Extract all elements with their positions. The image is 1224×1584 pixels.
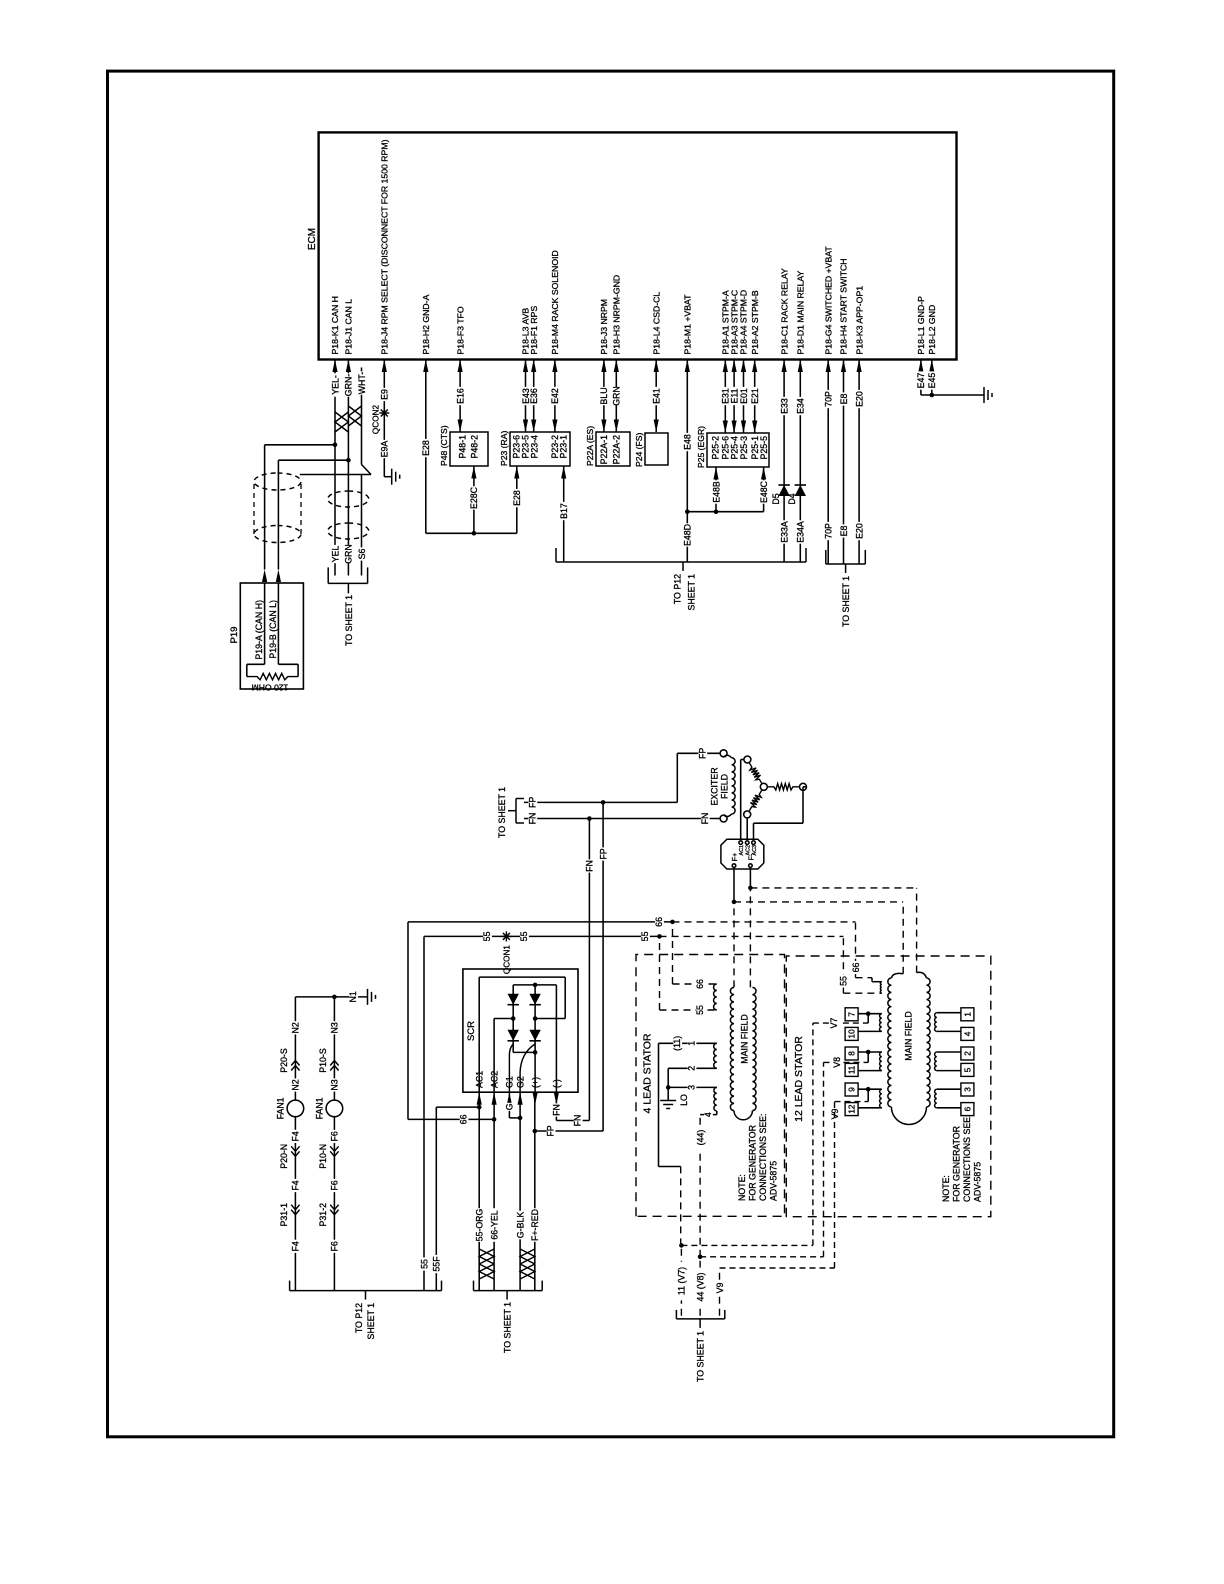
svg-text:P18-F3 TFO: P18-F3 TFO	[455, 306, 465, 354]
svg-text:P18-H2 GND-A: P18-H2 GND-A	[421, 294, 431, 354]
connector P25 (EGR)	[707, 433, 769, 467]
wire lead 4	[700, 1114, 717, 1116]
svg-text:66: 66	[654, 917, 664, 927]
quick connect P10-N	[330, 1146, 338, 1156]
svg-text:P18-G4 SWITCHED +VBAT: P18-G4 SWITCHED +VBAT	[823, 246, 833, 355]
ground for ECM	[983, 387, 985, 403]
svg-text:55: 55	[419, 1259, 429, 1269]
fan circuit 1 wire	[294, 997, 296, 1291]
svg-text:P22A (ES): P22A (ES)	[585, 426, 595, 466]
svg-text:P24 (FS): P24 (FS)	[634, 432, 644, 467]
svg-text:4: 4	[703, 1112, 713, 1117]
svg-text:NOTE:: NOTE:	[941, 1175, 951, 1202]
wire 44 (V8) to bracket	[699, 1257, 701, 1316]
wire shield link	[362, 465, 372, 475]
quick connect QCON2	[383, 408, 385, 418]
12LS phase winding 8-11	[880, 1052, 882, 1071]
wire E48C to P25-5	[763, 467, 765, 512]
svg-text:E8: E8	[839, 394, 849, 405]
svg-text:E36: E36	[529, 388, 539, 404]
wire BLU NRPM	[603, 360, 605, 433]
twisted pair 55-ORG/66-YEL	[479, 1264, 494, 1279]
wire 70P switched +VBAT	[827, 360, 829, 565]
svg-text:V9: V9	[715, 1283, 725, 1294]
svg-text:E01: E01	[739, 388, 749, 404]
4 lead stator dashed box	[636, 955, 785, 1217]
svg-text:GRN-: GRN-	[344, 374, 354, 397]
terminal 8	[858, 1051, 882, 1053]
svg-text:FN: FN	[700, 813, 710, 825]
svg-text:E47: E47	[916, 373, 926, 389]
wire 66 to 4LS aux	[672, 922, 674, 984]
node N1 junction	[332, 995, 337, 1000]
svg-text:10: 10	[848, 1029, 857, 1039]
wire S6 shield to sheet 1	[361, 475, 363, 576]
twisted pair G-BLK/F+-RED	[520, 1264, 535, 1279]
node 66 junction	[670, 920, 675, 925]
svg-text:MAIN FIELD: MAIN FIELD	[904, 1011, 914, 1060]
wire GRN NRPM-GND	[615, 360, 617, 433]
diode D5	[778, 485, 789, 496]
svg-text:CONNECTIONS SEE:: CONNECTIONS SEE:	[962, 1115, 972, 1203]
svg-text:F+: F+	[732, 853, 739, 861]
quick connect P10-S	[330, 1061, 338, 1071]
SCR bridge internal wiring	[478, 977, 480, 1092]
svg-text:E41: E41	[652, 388, 662, 404]
gate lead G2	[520, 1044, 535, 1072]
connector P19	[240, 583, 303, 689]
svg-text:P19: P19	[229, 627, 240, 644]
svg-text:9: 9	[848, 1087, 857, 1092]
svg-text:E20: E20	[854, 391, 864, 407]
wire E41 CSD-CL	[655, 360, 657, 433]
ECM box U1	[319, 132, 957, 359]
svg-text:E28: E28	[512, 490, 522, 506]
terminal armature A	[744, 756, 751, 763]
svg-text:CONNECTIONS SEE:: CONNECTIONS SEE:	[758, 1114, 768, 1202]
fan motor FAN1 (generator)	[326, 1100, 343, 1117]
svg-text:44 (V8): 44 (V8)	[695, 1273, 705, 1302]
wire FN return	[555, 1092, 557, 1120]
svg-text:TO P12: TO P12	[673, 574, 683, 604]
wire 66-YEL (AC2)	[493, 1092, 495, 1290]
wire E01 STPM-D	[743, 360, 745, 434]
svg-text:P19-B (CAN L): P19-B (CAN L)	[268, 600, 278, 659]
svg-text:N1: N1	[348, 991, 358, 1002]
svg-text:4: 4	[963, 1031, 972, 1036]
svg-text:E20: E20	[854, 523, 864, 539]
wire E28C to P48-2	[473, 466, 475, 533]
svg-text:FN: FN	[552, 1104, 562, 1116]
svg-text:WHT-: WHT-	[357, 372, 367, 395]
12LS auxiliary winding	[880, 982, 881, 994]
wire 11 (V7) to bracket	[680, 1245, 682, 1315]
svg-text:SHEET 1: SHEET 1	[687, 574, 697, 611]
wire E48 +VBAT	[686, 360, 688, 512]
wire armature C to AC3	[803, 786, 807, 788]
connector bracket TO SHEET 1 (SCR pairs)	[474, 1290, 543, 1292]
svg-text:TO SHEET 1: TO SHEET 1	[841, 576, 851, 627]
svg-text:P25-3: P25-3	[739, 436, 749, 460]
svg-text:55: 55	[640, 931, 650, 941]
svg-text:GRN: GRN	[344, 544, 354, 564]
svg-text:P25 (EGR): P25 (EGR)	[696, 426, 706, 468]
wire E33 rack relay	[783, 360, 785, 563]
wire E9 RPM select	[383, 360, 385, 477]
node E48 junction	[685, 509, 690, 514]
terminal 12	[858, 1107, 882, 1109]
svg-text:P18-J4 RPM SELECT (DISCONNECT: P18-J4 RPM SELECT (DISCONNECT FOR 1500 R…	[380, 139, 390, 354]
svg-text:55: 55	[482, 931, 492, 941]
svg-text:AC1: AC1	[739, 845, 745, 856]
svg-text:3: 3	[963, 1087, 972, 1092]
pin F-	[749, 864, 753, 868]
terminal 2	[937, 1051, 961, 1053]
svg-text:E16: E16	[455, 388, 465, 404]
terminal 7	[858, 1013, 882, 1015]
svg-text:(44): (44)	[695, 1130, 705, 1146]
svg-text:P18-K1 CAN H: P18-K1 CAN H	[330, 296, 340, 354]
svg-text:E9: E9	[380, 389, 390, 400]
twist of CAN wires	[335, 412, 348, 432]
pin AC3	[752, 841, 756, 845]
wire 66 net	[407, 922, 409, 1120]
svg-text:2: 2	[687, 1066, 697, 1071]
wire E48D to bracket	[686, 512, 688, 562]
svg-text:B17: B17	[559, 503, 569, 519]
terminal 4	[937, 1030, 961, 1032]
shield of P19 cable	[254, 526, 301, 543]
node E48B junction	[714, 509, 719, 514]
connector P24 (FS)	[645, 433, 668, 465]
svg-text:P18-H3 NRPM-GND: P18-H3 NRPM-GND	[612, 275, 622, 355]
svg-text:YEL: YEL	[330, 546, 340, 563]
svg-text:G-BLK: G-BLK	[515, 1212, 525, 1239]
svg-text:FOR GENERATOR: FOR GENERATOR	[952, 1126, 962, 1202]
4LS main field winding	[730, 987, 734, 1110]
wire G1 tie	[508, 1092, 510, 1118]
svg-text:F6: F6	[330, 1180, 340, 1190]
terminal armature B	[744, 811, 751, 818]
wire G-BLK (G2)	[519, 1092, 521, 1290]
svg-text:P22A-2: P22A-2	[612, 435, 622, 464]
svg-text:11: 11	[848, 1065, 857, 1074]
svg-text:E48: E48	[683, 434, 693, 450]
terminal 10	[858, 1030, 882, 1032]
svg-text:P48 (CTS): P48 (CTS)	[439, 425, 449, 466]
ground LO	[667, 1087, 669, 1100]
svg-text:4 LEAD STATOR: 4 LEAD STATOR	[642, 1033, 654, 1113]
svg-text:E9A: E9A	[380, 441, 390, 458]
border frame	[108, 71, 1114, 1437]
connector bracket TO P12 SHEET 1	[556, 561, 806, 563]
svg-text:YEL-: YEL-	[330, 375, 340, 395]
svg-text:1: 1	[963, 1012, 972, 1017]
svg-text:12: 12	[848, 1104, 857, 1114]
svg-text:FOR GENERATOR: FOR GENERATOR	[748, 1125, 758, 1201]
svg-text:66-YEL: 66-YEL	[489, 1210, 499, 1239]
node E28C junction	[472, 531, 477, 536]
wire armature B to AC2	[746, 818, 748, 839]
svg-text:P31-2: P31-2	[318, 1203, 328, 1227]
wire lead 3	[668, 1086, 717, 1088]
pin AC2	[745, 841, 749, 845]
node bridge junctions	[533, 983, 538, 988]
svg-text:FN: FN	[527, 813, 537, 825]
svg-text:12 LEAD STATOR: 12 LEAD STATOR	[793, 1036, 805, 1122]
diode D4	[795, 485, 806, 496]
ground at E9A	[384, 476, 391, 478]
svg-text:55: 55	[519, 931, 529, 941]
svg-text:E28: E28	[421, 440, 431, 456]
wire YEL CAN H	[334, 360, 336, 445]
wire ground drop	[921, 394, 984, 396]
svg-text:3: 3	[687, 1085, 697, 1090]
svg-text:ADV-5875: ADV-5875	[769, 1161, 779, 1201]
svg-text:MAIN FIELD: MAIN FIELD	[739, 1014, 749, 1063]
svg-text:SCR: SCR	[466, 1021, 477, 1041]
svg-text:P18-C1 RACK RELAY: P18-C1 RACK RELAY	[779, 268, 789, 354]
connector bracket TO P12 SHEET 1 (fans)	[290, 1290, 442, 1292]
4LS auxiliary winding	[714, 984, 717, 1010]
svg-text:E33: E33	[779, 398, 789, 414]
svg-text:FAN1: FAN1	[315, 1097, 325, 1119]
wire GRN CAN L	[347, 360, 349, 461]
wire F+-RED (+)	[534, 1092, 536, 1290]
12LS phase winding 1-4	[935, 1013, 937, 1032]
wire E11 STPM-C	[733, 360, 735, 434]
svg-text:8: 8	[848, 1051, 857, 1056]
wire armature A to AC1	[741, 759, 744, 761]
svg-text:BLU: BLU	[599, 387, 609, 404]
12LS main field winding	[888, 978, 892, 1107]
exciter field coil	[724, 755, 732, 758]
svg-text:TO SHEET 1: TO SHEET 1	[497, 787, 507, 838]
svg-text:F4: F4	[291, 1180, 301, 1190]
svg-text:N3: N3	[330, 1022, 340, 1033]
wire E34 main relay	[799, 360, 801, 563]
wire E47 GND-P	[920, 360, 922, 396]
quick connect QCON1	[505, 931, 507, 941]
wire E45 GND	[931, 360, 933, 396]
wire CAN H drop to P19-A	[265, 444, 335, 446]
terminal 5	[937, 1070, 961, 1072]
svg-text:P18-J3 NRPM: P18-J3 NRPM	[599, 299, 609, 355]
svg-text:ADV-5875: ADV-5875	[973, 1162, 983, 1202]
connector bracket TO SHEET 1 (stator leads)	[676, 1318, 724, 1320]
svg-text:11 (V7): 11 (V7)	[677, 1267, 687, 1295]
svg-text:P18-L4 CSD-CL: P18-L4 CSD-CL	[651, 292, 661, 355]
12 lead stator dashed box	[786, 956, 991, 1217]
svg-text:P18-H4 START SWITCH: P18-H4 START SWITCH	[839, 258, 849, 354]
svg-text:V7: V7	[829, 1018, 839, 1029]
node CAN H junction	[333, 443, 338, 448]
svg-text:TO P12: TO P12	[354, 1303, 364, 1333]
wire 55 net	[423, 936, 425, 1290]
connector P22A (ES)	[596, 432, 630, 466]
svg-text:N2: N2	[291, 1022, 301, 1033]
svg-text:P31-1: P31-1	[279, 1203, 289, 1227]
svg-text:D5: D5	[771, 493, 781, 504]
pin AC1	[739, 841, 743, 845]
svg-text:P22A-1: P22A-1	[599, 435, 609, 464]
svg-text:F4: F4	[291, 1131, 301, 1141]
svg-text:ECM: ECM	[307, 228, 318, 250]
wire FP return	[535, 1130, 603, 1132]
svg-text:70P: 70P	[824, 523, 834, 539]
svg-text:P10-S: P10-S	[318, 1048, 328, 1073]
node FP tap	[533, 1129, 538, 1134]
shield of sheet-1 CAN cable	[328, 523, 369, 539]
fan motor FAN1 (engine)	[287, 1100, 304, 1117]
wire E28 GND-A	[425, 360, 427, 534]
node FP junction	[601, 800, 606, 805]
terminal 6	[937, 1107, 961, 1109]
node FN junction	[587, 816, 592, 821]
wire N1 bus	[295, 996, 367, 998]
svg-text:E21: E21	[750, 388, 760, 404]
connector bracket TO SHEET 1 (power)	[826, 563, 866, 565]
quick connect P20-S	[291, 1061, 299, 1071]
svg-text:6: 6	[963, 1106, 972, 1111]
gate lead G1	[509, 1044, 513, 1055]
svg-text:70P: 70P	[824, 391, 834, 407]
wire FP	[524, 801, 677, 803]
svg-text:QCON2: QCON2	[372, 405, 381, 435]
svg-text:TO SHEET 1: TO SHEET 1	[696, 1331, 706, 1382]
resistor 120 OHM in P19	[264, 583, 266, 664]
svg-text:55: 55	[695, 1005, 705, 1015]
svg-text:FP: FP	[527, 797, 537, 808]
wire V9 tap	[866, 1087, 871, 1092]
wire 55 to 12LS aux	[660, 935, 844, 937]
wire FN	[524, 818, 720, 820]
12LS phase winding 2-5	[935, 1052, 937, 1071]
svg-text:NOTE:: NOTE:	[737, 1174, 747, 1201]
svg-text:S6: S6	[357, 549, 367, 560]
12LS phase winding 3-6	[935, 1089, 937, 1108]
svg-text:E48B: E48B	[711, 481, 721, 503]
connector bracket TO SHEET 1 (CAN)	[328, 582, 367, 584]
wire 55F	[436, 1106, 479, 1108]
svg-text:1: 1	[687, 1041, 697, 1046]
svg-text:P18-J1 CAN L: P18-J1 CAN L	[344, 299, 354, 355]
wire E42 rack solenoid	[554, 360, 556, 433]
wire E31 STPM-A	[724, 360, 726, 434]
svg-text:P48-1: P48-1	[457, 435, 467, 459]
svg-text:P18-A2 STPM-B: P18-A2 STPM-B	[750, 290, 760, 354]
wire WHT shield drain	[361, 368, 363, 465]
terminal 1	[937, 1012, 961, 1014]
svg-text:G: G	[505, 1103, 515, 1110]
wire E9A	[381, 440, 390, 458]
connector P23 (RA)	[510, 432, 570, 466]
wire F- to main fields	[749, 867, 751, 888]
wire GRN to sheet 1	[347, 460, 349, 575]
12LS phase winding 7-10	[880, 1014, 882, 1032]
svg-text:FP: FP	[697, 748, 707, 759]
diode CR2	[529, 994, 540, 1005]
terminal armature C	[800, 783, 807, 790]
wire lead 2	[668, 1067, 717, 1069]
svg-text:5: 5	[963, 1067, 972, 1072]
node 55 junction	[657, 934, 662, 939]
svg-text:F6: F6	[330, 1241, 340, 1251]
svg-text:E34A: E34A	[796, 521, 806, 543]
fan circuit 2 wire	[333, 997, 335, 1291]
svg-text:55: 55	[839, 976, 849, 986]
wire 66 to 12LS aux	[673, 921, 856, 923]
quick connect P31-2	[330, 1205, 338, 1215]
thyristor Q2	[529, 1030, 540, 1041]
svg-text:P18-A4 STPM-D: P18-A4 STPM-D	[739, 290, 749, 355]
svg-text:FN: FN	[585, 860, 595, 872]
svg-text:2: 2	[963, 1051, 972, 1056]
node LO junction	[666, 1085, 671, 1090]
svg-text:66: 66	[459, 1114, 469, 1124]
svg-text:P25-2: P25-2	[710, 436, 720, 460]
svg-text:F4: F4	[291, 1241, 301, 1251]
svg-text:66: 66	[695, 979, 705, 989]
svg-text:F+-RED: F+-RED	[530, 1209, 540, 1241]
rotating rectifier	[721, 839, 764, 869]
svg-text:F-: F-	[749, 853, 756, 860]
SCR box	[463, 969, 578, 1092]
svg-text:V8: V8	[832, 1057, 842, 1068]
terminal 9	[858, 1088, 882, 1090]
wire E21 STPM-B	[754, 360, 756, 434]
svg-text:120 OHM: 120 OHM	[252, 683, 289, 693]
wire V8 tap	[866, 1050, 871, 1055]
svg-text:SHEET 1: SHEET 1	[366, 1303, 376, 1340]
svg-text:E45: E45	[927, 373, 937, 389]
12LS phase winding 9-12	[880, 1089, 882, 1108]
wire lead 1	[659, 1042, 717, 1044]
terminal 11	[858, 1070, 882, 1072]
svg-text:P18-F1 RPS: P18-F1 RPS	[529, 306, 539, 355]
wire B17	[563, 466, 565, 562]
svg-text:P10-N: P10-N	[318, 1144, 328, 1169]
svg-text:P18-L1 GND-P: P18-L1 GND-P	[916, 296, 926, 355]
quick connect P20-N	[291, 1146, 299, 1156]
svg-text:P19-A (CAN H): P19-A (CAN H)	[254, 600, 264, 660]
wire V9 to bracket	[719, 1268, 721, 1316]
node CAN L junction	[346, 458, 351, 463]
svg-text:N3: N3	[330, 1079, 340, 1090]
svg-text:E33A: E33A	[779, 521, 789, 543]
pin F+	[732, 864, 736, 868]
svg-text:P25-4: P25-4	[729, 436, 739, 460]
wire CAN L drop to P19-B	[278, 459, 348, 461]
svg-text:7: 7	[848, 1012, 857, 1017]
svg-text:E48C: E48C	[759, 480, 769, 503]
svg-text:LO: LO	[679, 1094, 689, 1106]
wire E48B to P25-2	[715, 467, 717, 512]
svg-text:P18-K3 APP-OP1: P18-K3 APP-OP1	[854, 286, 864, 355]
wire E48 branch	[687, 511, 763, 513]
node E45 junction	[930, 393, 935, 398]
svg-text:D4: D4	[787, 493, 797, 504]
terminal FP	[720, 750, 727, 757]
terminal 3	[937, 1088, 961, 1090]
terminal FN	[720, 815, 727, 822]
exciter armature wye	[750, 763, 762, 783]
svg-text:P20-N: P20-N	[279, 1144, 289, 1169]
wire F+ to main fields	[733, 867, 735, 902]
thyristor Q1	[508, 1030, 519, 1041]
svg-text:FIELD: FIELD	[720, 774, 730, 799]
svg-text:FP: FP	[598, 848, 608, 859]
